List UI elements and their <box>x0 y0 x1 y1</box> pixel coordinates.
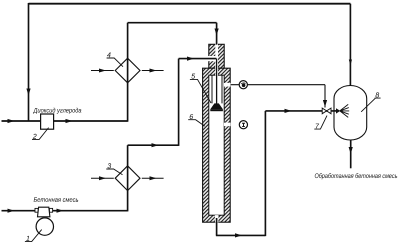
wire: top connector to column <box>128 22 217 24</box>
wire: bottom outlet horizontal <box>216 234 266 236</box>
wire: left vertical recycle drop <box>28 3 30 121</box>
pump P1 <box>35 207 54 235</box>
arrow: to spray valve <box>285 109 292 113</box>
arrow: after pump <box>57 209 64 213</box>
arrow: below chamber 8 <box>349 147 353 154</box>
wire: line to spray valve <box>265 110 336 112</box>
valve 5 head <box>210 103 223 111</box>
callout 6 autoclave <box>188 114 205 126</box>
callout 2 reducer <box>32 128 49 140</box>
arrow: mid horizontal <box>152 143 159 147</box>
wire: vertical through filter 4 <box>127 23 129 122</box>
arrow: CO2 inlet <box>8 119 15 123</box>
wire: valve stem down through cap <box>216 23 218 45</box>
label: Диоксид углерода <box>33 108 81 114</box>
label: Обработанная бетонная смесь <box>315 173 397 179</box>
callout 7 spray valve <box>314 116 327 130</box>
filter F3 diamond <box>91 166 164 191</box>
wire: top recycle line <box>29 3 351 5</box>
arrow: gauge line into valve <box>323 100 327 107</box>
arrow: mix inlet <box>8 209 15 213</box>
chamber 8 capsule <box>334 86 367 141</box>
arrow: above chamber 8 <box>349 60 352 66</box>
wire: concrete mix inlet line <box>2 210 128 212</box>
callout 5 valve <box>190 74 211 103</box>
gauge M instrument <box>239 81 247 89</box>
wire: mid horizontal <box>128 144 179 146</box>
spray nozzle in chamber <box>334 104 349 117</box>
inner tube of column <box>211 75 213 103</box>
wire: right riser to valve <box>264 111 266 236</box>
reducer valve V2 box <box>41 114 54 129</box>
arrow: into column top <box>215 29 219 36</box>
wire: CO2 inlet line <box>2 120 128 122</box>
autoclave column 6 body <box>203 43 231 222</box>
callout 4 filter <box>107 52 123 66</box>
wire: vertical drop into valve <box>324 85 326 108</box>
wire: gauge line to valve drop <box>230 84 325 86</box>
arrow: bottom outlet <box>235 233 242 237</box>
wire: pipe below chamber 8 <box>350 140 352 169</box>
arrow: recycle down left <box>26 89 30 96</box>
label: Бетонная смесь <box>34 197 78 202</box>
callout 8 chamber <box>361 92 380 111</box>
filter F4 diamond <box>91 58 164 83</box>
wire: riser to column inlet <box>178 59 180 146</box>
spray valve 7 bowtie <box>322 108 331 114</box>
wire: column side inlet <box>179 58 217 60</box>
wire: column bottom outlet <box>216 218 218 235</box>
wire: vertical through heater 3 <box>127 145 129 211</box>
wire: pipe above chamber 8 <box>349 4 351 87</box>
arrow: after reducer 2 <box>66 119 73 123</box>
arrow: into column side <box>187 57 194 61</box>
callout 3 filter <box>106 163 122 174</box>
gauge T instrument <box>239 121 247 129</box>
callout 1 pump <box>25 230 42 242</box>
